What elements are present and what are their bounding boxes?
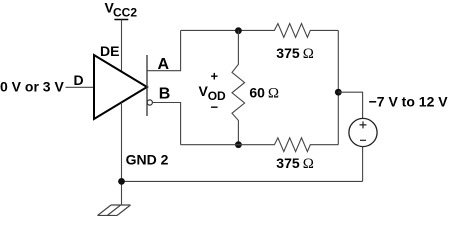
source V1 circle <box>349 118 377 146</box>
svg-text:375: 375 <box>276 45 300 61</box>
svg-text:0 V or 3 V: 0 V or 3 V <box>0 78 64 94</box>
svg-text:−: − <box>211 99 219 114</box>
label source minus <box>360 139 366 141</box>
driver U1 triangle <box>94 55 147 119</box>
node junction dot ground <box>118 178 125 185</box>
svg-text:GND 2: GND 2 <box>126 151 169 167</box>
wire output A to top rail <box>147 30 181 70</box>
svg-text:B: B <box>159 85 171 102</box>
wire junction to source <box>338 92 362 118</box>
ground symbol <box>98 205 131 216</box>
svg-text:CC2: CC2 <box>113 6 137 20</box>
node junction dot right <box>335 89 342 96</box>
svg-text:−7 V to 12 V: −7 V to 12 V <box>369 94 449 110</box>
wire GND2 from driver bottom edge to ground rail <box>121 102 123 205</box>
inversion bubble on B output <box>147 100 152 105</box>
svg-text:Ω: Ω <box>268 85 279 101</box>
wire right vertical joining R1 and R2 <box>337 30 339 144</box>
resistor R3 60 ohm vertical with leads <box>232 30 245 144</box>
wire top rail with resistor R1 zigzag <box>181 24 339 38</box>
svg-text:375: 375 <box>276 155 300 171</box>
svg-text:Ω: Ω <box>303 46 314 62</box>
svg-text:60: 60 <box>249 84 265 100</box>
wire output B down to bottom rail <box>152 103 180 145</box>
output bar at driver tip <box>146 55 148 116</box>
node VCC2 terminal bar <box>114 19 128 21</box>
wire ground rail <box>122 180 363 182</box>
label source plus <box>360 121 367 128</box>
svg-text:D: D <box>74 72 84 88</box>
svg-text:Ω: Ω <box>303 156 314 172</box>
node junction dot bottom (B-R2) <box>235 141 242 148</box>
wire source to ground rail <box>362 147 364 182</box>
wire D input <box>66 86 95 88</box>
wire bottom rail with resistor R2 zigzag <box>181 138 339 152</box>
svg-text:DE: DE <box>100 43 119 59</box>
svg-text:+: + <box>211 69 219 84</box>
wire VCC2 to driver top edge <box>121 20 123 72</box>
node junction dot top (A-R3) <box>235 27 242 34</box>
